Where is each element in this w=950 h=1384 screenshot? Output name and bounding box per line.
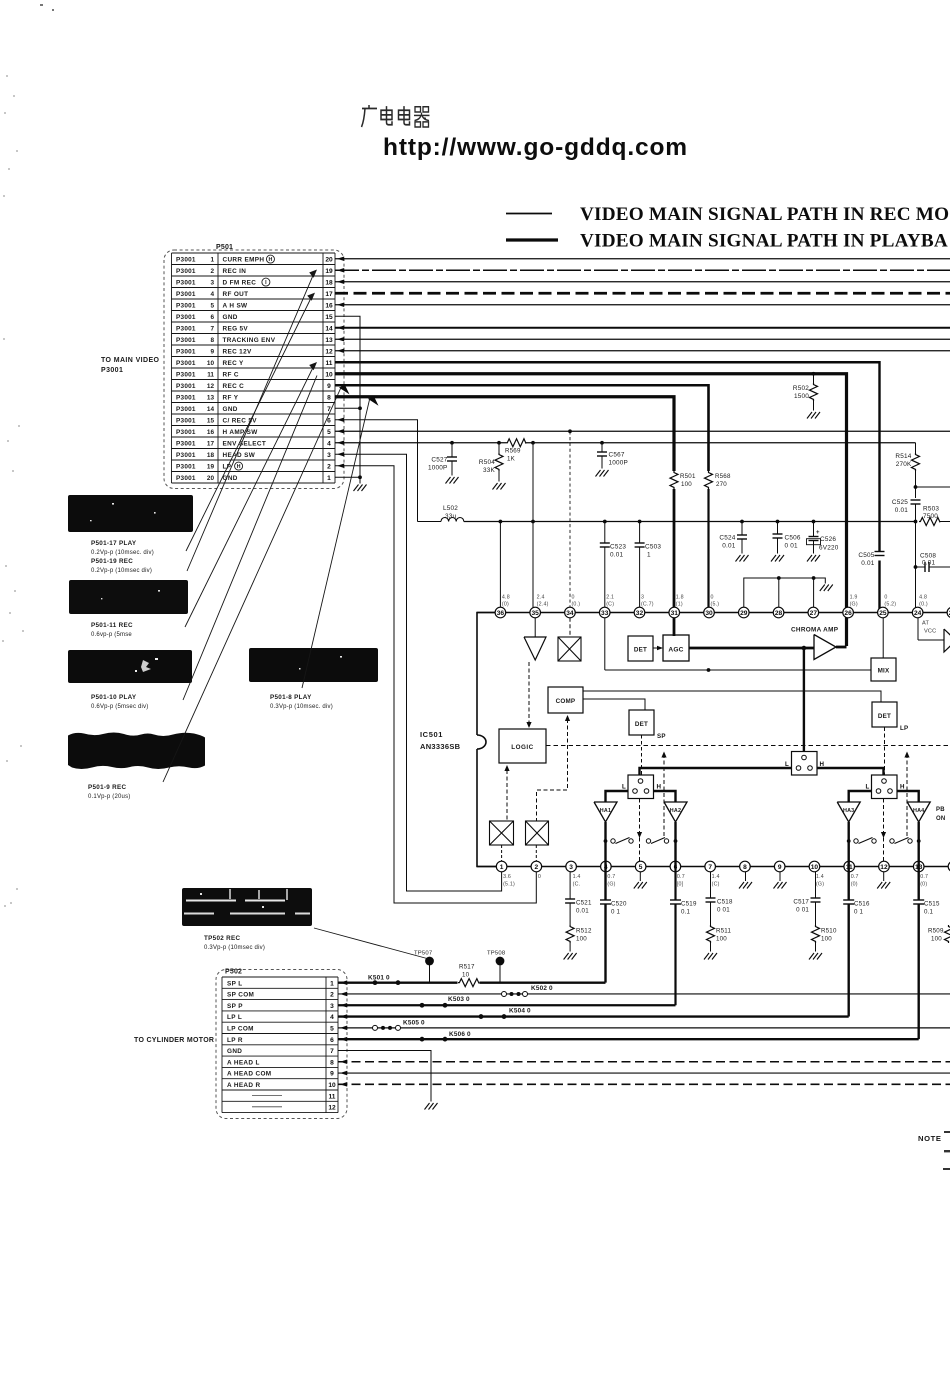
svg-text:7: 7 (210, 325, 214, 332)
ground under pin12 (883, 872, 885, 881)
svg-text:0.01: 0.01 (722, 543, 735, 550)
svg-text:9: 9 (327, 383, 331, 390)
svg-text:K504 0: K504 0 (509, 1008, 531, 1015)
svg-text:9: 9 (210, 348, 214, 355)
svg-text:0 01: 0 01 (796, 907, 809, 914)
ground (C567) (596, 470, 609, 477)
IC501 partial pin 14 at edge (948, 861, 950, 872)
svg-text:CHROMA AMP: CHROMA AMP (791, 627, 839, 634)
svg-text:16: 16 (325, 302, 333, 309)
svg-text:P3001: P3001 (176, 475, 196, 482)
svg-text:0.01: 0.01 (922, 560, 935, 567)
svg-text:0.01: 0.01 (610, 552, 623, 559)
wire pin24 VCC stub (917, 618, 919, 640)
wire RF OUT (pin17) thick dashed (335, 292, 950, 295)
link K503 (420, 1003, 425, 1008)
svg-text:270: 270 (716, 481, 727, 488)
capacitor C516 0.1 (series pin11 line) (843, 900, 854, 904)
ground (pin9) (774, 882, 787, 889)
svg-text:3: 3 (210, 279, 214, 286)
leader line TP502 to TP507 (314, 928, 427, 959)
svg-text:IC501: IC501 (420, 730, 443, 739)
link K506 (420, 1037, 425, 1042)
svg-text:TP502 REC: TP502 REC (204, 935, 240, 942)
svg-text:3: 3 (569, 864, 573, 871)
svg-text:C515: C515 (924, 901, 940, 908)
svg-text:25: 25 (879, 610, 887, 617)
dashed control to LP contacts (904, 752, 909, 758)
LOGIC box (499, 729, 546, 763)
svg-text:C503: C503 (645, 544, 661, 551)
svg-text:R501: R501 (680, 473, 696, 480)
connector P501 table (172, 253, 336, 483)
svg-text:20: 20 (325, 256, 333, 263)
shaper crossed box 1 (490, 821, 514, 845)
svg-text:0.7: 0.7 (920, 874, 928, 880)
svg-text:P3001: P3001 (176, 314, 196, 321)
svg-text:12: 12 (207, 383, 215, 390)
svg-text:0: 0 (711, 595, 714, 601)
svg-text:P3001: P3001 (176, 383, 196, 390)
svg-text:D FM REC: D FM REC (223, 279, 257, 286)
connector P502 table (222, 977, 338, 1113)
svg-text:R568: R568 (715, 473, 731, 480)
MIX box (871, 658, 896, 681)
svg-text:DET: DET (635, 721, 648, 728)
svg-text:20: 20 (207, 475, 215, 482)
svg-text:16: 16 (207, 429, 215, 436)
svg-text:(C): (C) (606, 602, 614, 608)
thick wire down to head select switch (803, 648, 805, 752)
oscillogram photo P501-11 (69, 580, 188, 614)
svg-text:K505 0: K505 0 (403, 1020, 425, 1027)
svg-text:C527: C527 (431, 457, 447, 464)
wire C/REC 5V (pin6) down to L502 line (335, 420, 418, 522)
link K501 (373, 980, 378, 985)
wire GND row to ground (338, 1050, 431, 1101)
internal line pin33/pin30 to MIX (604, 618, 606, 670)
svg-text:R510: R510 (821, 928, 837, 935)
svg-text:A H SW: A H SW (223, 302, 249, 309)
svg-text:0: 0 (571, 595, 574, 601)
svg-text:100: 100 (821, 936, 832, 943)
svg-text:12: 12 (325, 348, 333, 355)
svg-text:3: 3 (330, 1003, 334, 1010)
svg-text:1.4: 1.4 (816, 874, 824, 880)
svg-text:P501: P501 (216, 244, 233, 251)
svg-text:1: 1 (327, 475, 331, 482)
svg-text:P501-11 REC: P501-11 REC (91, 622, 133, 629)
COMP box (548, 687, 583, 713)
svg-text:4: 4 (327, 440, 331, 447)
svg-text:[0]: [0] (677, 882, 684, 888)
head amp HA3 (849, 791, 872, 802)
link K502 (502, 991, 507, 996)
resistor R501 100 (series to pin31) (670, 471, 678, 489)
dashed leads shaper boxes to pins 1,2 (501, 845, 503, 862)
svg-text:8: 8 (210, 337, 214, 344)
capacitor C567 1000P (600, 441, 604, 445)
azimuth switch contacts LP side (847, 839, 851, 843)
wire A HEAD COM row (338, 1072, 950, 1074)
svg-text:270K: 270K (896, 461, 912, 468)
svg-text:C523: C523 (610, 544, 626, 551)
svg-text:0.01: 0.01 (576, 908, 589, 915)
wire SP COM row (338, 993, 950, 995)
leader line to pin9 stub (163, 388, 341, 783)
svg-text:2: 2 (210, 268, 214, 275)
svg-text:0.01: 0.01 (861, 560, 874, 567)
wire COMP to DET SP (583, 699, 645, 710)
svg-text:R569: R569 (505, 448, 521, 455)
svg-text:K506 0: K506 0 (449, 1031, 471, 1038)
svg-text:K502 0: K502 0 (531, 985, 553, 992)
svg-text:P3001: P3001 (176, 337, 196, 344)
svg-text:R502: R502 (793, 385, 809, 392)
svg-text:0.2Vp-p (10msec div): 0.2Vp-p (10msec div) (91, 568, 152, 574)
svg-text:0: 0 (538, 874, 541, 880)
svg-text:18: 18 (325, 279, 333, 286)
ground (R504) (493, 483, 506, 490)
svg-text:6V220: 6V220 (819, 545, 839, 552)
svg-text:15: 15 (207, 417, 215, 424)
svg-text:27: 27 (810, 610, 818, 617)
oscillogram photo TP502 (182, 888, 312, 926)
svg-text:0 1: 0 1 (611, 909, 621, 916)
svg-text:VCC: VCC (924, 629, 936, 635)
svg-text:GND: GND (223, 314, 238, 321)
scan noise left margin (2, 75, 24, 907)
svg-text:RF Y: RF Y (223, 394, 239, 401)
svg-text:HA3: HA3 (843, 808, 854, 814)
svg-text:A HEAD COM: A HEAD COM (227, 1071, 271, 1078)
svg-text:K501 0: K501 0 (368, 975, 390, 982)
svg-text:LP: LP (900, 725, 908, 732)
shaper crossed box 2 (526, 821, 549, 845)
svg-text:P3001: P3001 (176, 268, 196, 275)
svg-text:1: 1 (647, 552, 651, 559)
svg-text:P3001: P3001 (176, 302, 196, 309)
svg-text:0: 0 (884, 595, 887, 601)
capacitor C505 0.01 (series in REC Y line) (875, 552, 885, 556)
svg-text:P3001: P3001 (176, 406, 196, 413)
svg-text:H: H (268, 257, 272, 263)
svg-text:P3001: P3001 (176, 452, 196, 459)
ground under pin9 (779, 872, 781, 881)
svg-text:17: 17 (325, 291, 333, 298)
svg-text:P3001: P3001 (176, 291, 196, 298)
svg-text:1: 1 (330, 980, 334, 987)
svg-text:(G): (G) (816, 882, 824, 888)
wire RF C (pin10) to IC pin26 (335, 374, 847, 646)
wire ENV SELECT (pin4) (335, 442, 506, 444)
svg-text:7: 7 (330, 1048, 334, 1055)
svg-text:0 1: 0 1 (854, 909, 864, 916)
dashed link triangle to LOGIC (528, 662, 530, 722)
svg-text:0.1Vp-p (20us): 0.1Vp-p (20us) (88, 794, 131, 800)
svg-text:2: 2 (327, 463, 331, 470)
svg-text:9: 9 (778, 864, 782, 871)
wire pin34 up to H AMP SW line (569, 431, 571, 612)
svg-text:10: 10 (462, 972, 470, 979)
svg-text:L: L (866, 784, 870, 791)
svg-text:R511: R511 (716, 928, 731, 935)
svg-text:C518: C518 (717, 899, 733, 906)
svg-text:A HEAD L: A HEAD L (227, 1059, 260, 1066)
node line from R514 bottom to right edge (914, 485, 918, 489)
svg-text:(1): (1) (676, 602, 683, 608)
svg-text:(C): (C) (712, 882, 720, 888)
svg-text:4: 4 (330, 1014, 334, 1021)
ground (pins 27-29) (820, 585, 833, 592)
wire CURR EMPH (pin20) (335, 258, 950, 260)
svg-text:MIX: MIX (878, 668, 890, 675)
svg-text:HA1: HA1 (600, 808, 611, 814)
svg-text:0.1: 0.1 (681, 909, 691, 916)
svg-text:C524: C524 (719, 535, 735, 542)
svg-text:P3001: P3001 (176, 325, 196, 332)
dashed select lead to pin12 (883, 799, 885, 862)
svg-text:3.6: 3.6 (503, 874, 511, 880)
dashed link DET LP to LP select box (884, 727, 886, 775)
capacitor C515 0.1 (series pin13 line) (913, 900, 924, 904)
test point TP508 (496, 957, 505, 966)
svg-text:5: 5 (639, 864, 643, 871)
svg-text:0.3Vp-p (10msec div): 0.3Vp-p (10msec div) (204, 945, 265, 951)
svg-text:13: 13 (207, 394, 215, 401)
svg-text:1000P: 1000P (609, 460, 628, 467)
wire GND pin7 stub (335, 407, 360, 409)
svg-text:0.7: 0.7 (851, 874, 859, 880)
ground (pin8) (739, 882, 752, 889)
svg-text:4.8: 4.8 (919, 595, 927, 601)
svg-text:19: 19 (207, 463, 215, 470)
dashed control bus line (546, 745, 950, 747)
svg-text:6: 6 (327, 417, 331, 424)
leader line to pin17 stub (186, 294, 313, 551)
svg-text:9: 9 (330, 1071, 334, 1078)
svg-text:ON: ON (936, 816, 945, 822)
ground (C524) (736, 555, 749, 562)
ground (C506) (771, 555, 784, 562)
svg-text:34: 34 (566, 610, 574, 617)
svg-text:1.4: 1.4 (712, 874, 720, 880)
svg-text:REC 12V: REC 12V (223, 348, 252, 355)
wire LP R row to IC pin13 (338, 1038, 919, 1040)
ground (R510) (809, 953, 822, 960)
oscillogram photo P501-10 (68, 650, 192, 683)
svg-text:H: H (657, 784, 662, 791)
svg-text:0 01: 0 01 (785, 543, 798, 550)
capacitor C527 1000P (450, 441, 454, 445)
svg-text:R517: R517 (459, 964, 475, 971)
leader line to pin8 stub (302, 398, 370, 689)
ground (R502) (807, 412, 820, 419)
ground (C526) (807, 555, 820, 562)
DET SP box (629, 710, 654, 735)
ground (R512) (564, 953, 577, 960)
head amp HA2 (654, 791, 676, 802)
svg-text:C520: C520 (611, 901, 627, 908)
svg-text:P3001: P3001 (176, 429, 196, 436)
svg-text:P3001: P3001 (176, 360, 196, 367)
site logo chinese characters 广电电器 (362, 105, 430, 127)
svg-text:10: 10 (811, 864, 819, 871)
svg-text:1.4: 1.4 (573, 874, 581, 880)
DET LP box (872, 702, 897, 727)
wire D FM REC (pin18) (335, 281, 950, 283)
thick wire AGC to CHROMA AMP (689, 647, 814, 650)
svg-text:TO CYLINDER MOTOR: TO CYLINDER MOTOR (134, 1037, 214, 1044)
wire GND pin15 to ground rail (335, 316, 360, 483)
svg-text:P3001: P3001 (176, 279, 196, 286)
IC501 bottom pins 1..13 (496, 861, 507, 872)
svg-text:(5.2): (5.2) (884, 602, 896, 608)
svg-text:1500: 1500 (794, 393, 809, 400)
dashed link COMP to shaper 2 (565, 715, 570, 721)
svg-text:C526: C526 (820, 536, 836, 543)
wire REC 12V (pin12) (335, 350, 950, 352)
wire GND pin1 stub (335, 476, 360, 478)
IC501 top pins 36..24 (495, 607, 506, 618)
IC501 AN3336SB outline (477, 613, 500, 736)
svg-text:R504: R504 (479, 459, 495, 466)
svg-text:CURR EMPH: CURR EMPH (223, 256, 265, 263)
resistor R568 270 (series to pin30) (705, 471, 713, 489)
svg-text:6: 6 (210, 314, 214, 321)
svg-text:P501-9 REC: P501-9 REC (88, 784, 127, 791)
capacitor C524 0.01 (740, 520, 744, 524)
svg-text:TP508: TP508 (487, 951, 506, 957)
svg-text:C508: C508 (920, 553, 936, 560)
svg-text:TRACKING ENV: TRACKING ENV (223, 337, 276, 344)
svg-text:28: 28 (775, 610, 783, 617)
capacitor C508 0.01 (to right edge) (914, 565, 918, 569)
svg-text:11: 11 (326, 360, 333, 367)
capacitor C517 0.01 + resistor R510 100 under pin10 (815, 872, 817, 898)
svg-text:H: H (900, 784, 905, 791)
amplifier triangle under pin35 (524, 637, 546, 660)
svg-text:4.8: 4.8 (502, 595, 510, 601)
svg-text:P501-10 PLAY: P501-10 PLAY (91, 694, 137, 701)
leader line to pin19 stub (187, 271, 315, 571)
ground (pin5) (634, 882, 647, 889)
wire pin25 to MIX (882, 618, 884, 658)
svg-text:H AMP SW: H AMP SW (223, 429, 259, 436)
svg-text:35: 35 (531, 610, 539, 617)
leader arrowhead on REC C line (339, 385, 350, 395)
svg-text:P501-8 PLAY: P501-8 PLAY (270, 694, 312, 701)
svg-text:0.2Vp-p (10msec. div): 0.2Vp-p (10msec. div) (91, 550, 154, 556)
thick wires HA outputs to pins 4,6,11,13 (604, 822, 606, 867)
svg-text:100: 100 (716, 936, 727, 943)
svg-text:P3001: P3001 (176, 417, 196, 424)
svg-text:AN3336SB: AN3336SB (420, 742, 461, 751)
ground tie pins 29,28,27 (744, 578, 826, 607)
svg-text:NOTE: NOTE (918, 1134, 942, 1143)
dashed control to SP contacts (661, 752, 666, 758)
svg-text:0 01: 0 01 (717, 907, 730, 914)
svg-text:1.8: 1.8 (676, 595, 684, 601)
svg-text:2: 2 (330, 992, 334, 999)
head amp HA1 (606, 791, 629, 802)
wire REC C (pin9) to R568 (335, 385, 709, 471)
svg-text:GND: GND (223, 406, 238, 413)
wire R503 node down to C508 node and pin24 (915, 522, 917, 613)
svg-text:TO MAIN VIDEO: TO MAIN VIDEO (101, 357, 160, 364)
svg-text:P501-19 REC: P501-19 REC (91, 558, 133, 565)
svg-text:1000P: 1000P (428, 465, 447, 472)
svg-text:10: 10 (328, 1082, 336, 1089)
svg-text:HEAD SW: HEAD SW (223, 452, 256, 459)
svg-text:33u: 33u (445, 513, 457, 520)
resistor R502 1500 (on RF C line) (812, 372, 816, 376)
svg-text:(2.4): (2.4) (537, 602, 549, 608)
svg-text:P502: P502 (225, 969, 242, 976)
svg-text:REC Y: REC Y (223, 360, 245, 367)
capacitor C521 0.01 + resistor R512 100 under pin3 (569, 872, 571, 899)
wire LP (pin2) to IC pin2 (335, 466, 536, 903)
ground (connector gnd rail) (354, 485, 367, 492)
svg-text:11: 11 (207, 371, 214, 378)
wire H AMP SW (pin5) (335, 430, 950, 432)
capacitor C520 0.1 (series pin4 line) (600, 900, 611, 904)
wire IC pin13 to LP R row (918, 867, 920, 901)
wire A HEAD R row (dashed) (338, 1083, 950, 1085)
svg-text:SP: SP (657, 733, 666, 740)
ground (P502 GND) (425, 1103, 438, 1110)
svg-text:33: 33 (601, 610, 609, 617)
svg-text:3: 3 (327, 452, 331, 459)
svg-text:15: 15 (325, 314, 333, 321)
svg-text:0.1: 0.1 (924, 909, 934, 916)
svg-text:RF OUT: RF OUT (223, 291, 249, 298)
svg-text:36: 36 (497, 610, 505, 617)
wire SP P row to IC pin6 (338, 1004, 676, 1006)
svg-text:12: 12 (880, 864, 888, 871)
svg-text:0.7: 0.7 (677, 874, 685, 880)
svg-text:http://www.go-gddq.com: http://www.go-gddq.com (383, 134, 688, 161)
svg-text:1: 1 (500, 864, 504, 871)
wire IC pin36 up to L502 line (499, 520, 503, 524)
ground (C527) (446, 477, 459, 484)
svg-text:19: 19 (325, 268, 333, 275)
leader arrowhead on RF Y line (368, 396, 379, 406)
thick wire chroma amp out to pin26 (836, 646, 847, 649)
svg-text:29: 29 (740, 610, 748, 617)
svg-text:COMP: COMP (556, 698, 576, 705)
svg-text:5: 5 (210, 302, 214, 309)
svg-text:P501-17 PLAY: P501-17 PLAY (91, 540, 137, 547)
ground (R511) (704, 953, 717, 960)
legend REC mode sample line (506, 213, 552, 215)
svg-text:0.6Vp-p (5msec div): 0.6Vp-p (5msec div) (91, 704, 149, 710)
svg-text:12: 12 (328, 1105, 336, 1112)
capacitor C519 0.1 (series pin6 line) (670, 900, 681, 904)
oscillogram photo P501-9 (rf envelope) (68, 733, 205, 770)
thick wire switch to HA3/HA4 select (817, 768, 884, 775)
svg-text:5: 5 (330, 1026, 334, 1033)
resistor R517 10 (series SP L row) (458, 979, 479, 987)
capacitor C523 0.01 (L502 line to pin33) (603, 520, 607, 524)
capacitor C525 0.01 (911, 500, 921, 504)
HA1/HA2 select switch box (628, 775, 654, 799)
svg-text:C516: C516 (854, 901, 870, 908)
svg-text:(C.7): (C.7) (641, 602, 654, 608)
svg-text:13: 13 (325, 337, 333, 344)
dashed link DET SP to bus (641, 735, 643, 775)
svg-text:0.6vp-p (5mse: 0.6vp-p (5mse (91, 632, 132, 638)
